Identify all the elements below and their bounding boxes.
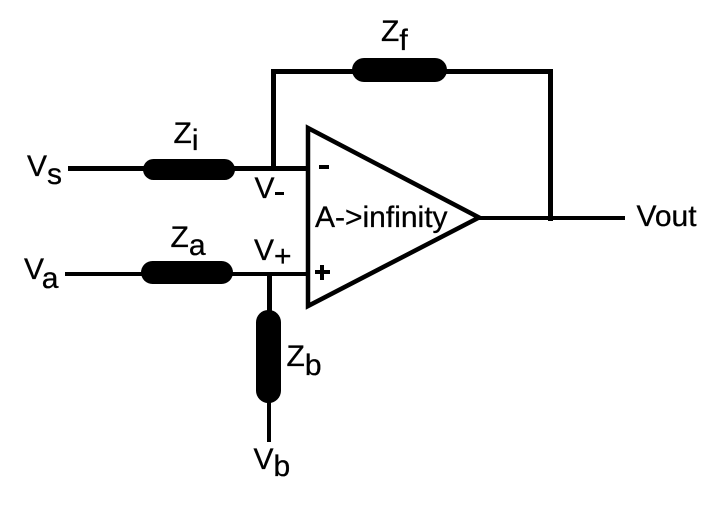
wire Zb bottom to Vb	[267, 400, 271, 442]
label Va	[24, 255, 58, 285]
label Zi	[174, 119, 199, 149]
wire feedback left vertical from V- node up	[271, 69, 276, 171]
wire feedback right vertical down to output	[548, 69, 553, 221]
label Zf	[381, 17, 408, 47]
wire Va to non-inverting input	[65, 272, 306, 277]
node V- label	[255, 174, 275, 204]
impedance Zf body	[352, 58, 447, 82]
wire output to Vout	[479, 216, 625, 221]
op-amp gain label A->infinity	[315, 203, 448, 233]
label Za	[171, 223, 206, 253]
op-amp inverting pin mark -	[319, 165, 329, 169]
impedance Zb body	[256, 310, 281, 403]
op-amp non-inverting pin mark + horizontal	[315, 270, 330, 274]
impedance Zi body	[143, 159, 235, 181]
label Vs	[27, 152, 62, 182]
op-amp non-inverting pin mark + vertical	[320, 265, 324, 280]
label Vb	[254, 445, 291, 475]
wire feedback top horizontal through Zf	[271, 69, 553, 74]
label Zb	[287, 342, 322, 372]
node V+ junction wire down to Zb	[267, 272, 271, 312]
wire Vs to inverting input	[68, 166, 306, 171]
label Vout	[637, 202, 697, 232]
impedance Za body	[141, 261, 234, 284]
node V+ label	[254, 236, 292, 266]
